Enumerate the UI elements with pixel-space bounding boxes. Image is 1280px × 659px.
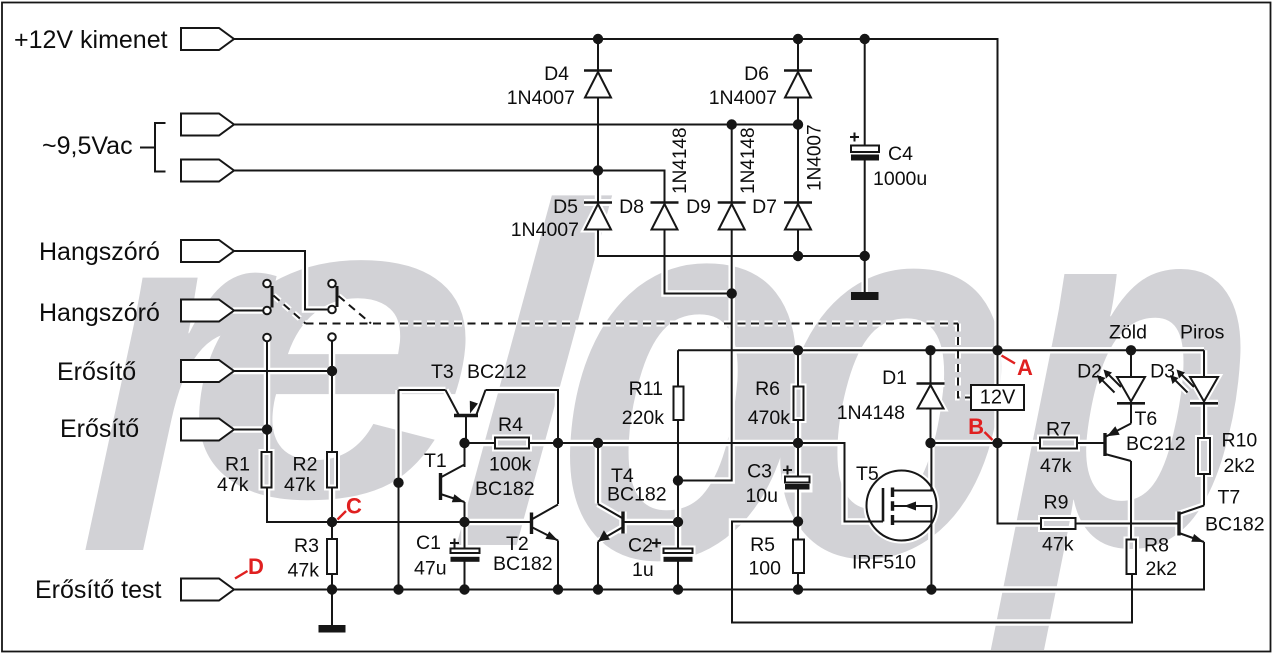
- svg-text:R1: R1: [225, 454, 250, 476]
- svg-text:R9: R9: [1044, 492, 1069, 514]
- svg-text:T3: T3: [431, 361, 454, 383]
- svg-text:47k: 47k: [288, 560, 320, 582]
- svg-text:1N4148: 1N4148: [837, 402, 905, 424]
- svg-text:2k2: 2k2: [1224, 455, 1255, 477]
- svg-text:BC182: BC182: [475, 478, 535, 500]
- svg-text:C3: C3: [747, 461, 772, 483]
- svg-text:D: D: [248, 554, 264, 579]
- svg-text:T1: T1: [424, 450, 447, 472]
- svg-text:~9,5Vac: ~9,5Vac: [42, 132, 133, 160]
- svg-text:BC182: BC182: [1205, 514, 1265, 536]
- svg-text:1N4007: 1N4007: [511, 219, 579, 241]
- svg-text:D9: D9: [686, 196, 711, 218]
- svg-text:C1: C1: [416, 532, 441, 554]
- svg-text:47k: 47k: [1040, 455, 1072, 477]
- svg-text:Erősítő: Erősítő: [60, 415, 139, 443]
- svg-text:Erősítő: Erősítő: [57, 358, 136, 386]
- svg-text:+12V kimenet: +12V kimenet: [14, 26, 168, 54]
- svg-text:R3: R3: [294, 535, 319, 557]
- svg-text:BC182: BC182: [493, 553, 553, 575]
- svg-text:BC212: BC212: [1126, 433, 1186, 455]
- svg-text:100: 100: [748, 558, 781, 580]
- svg-text:C2: C2: [628, 535, 653, 557]
- svg-text:12V: 12V: [980, 387, 1016, 409]
- svg-text:D2: D2: [1077, 361, 1102, 383]
- svg-text:100k: 100k: [489, 454, 532, 476]
- svg-text:1N4007: 1N4007: [507, 87, 575, 109]
- svg-text:D7: D7: [752, 196, 777, 218]
- svg-text:BC212: BC212: [467, 361, 527, 383]
- svg-text:1N4007: 1N4007: [709, 87, 777, 109]
- svg-text:D6: D6: [744, 63, 769, 85]
- svg-text:Erősítő test: Erősítő test: [35, 576, 161, 604]
- svg-text:2k2: 2k2: [1146, 558, 1177, 580]
- svg-text:1N4148: 1N4148: [670, 127, 691, 194]
- svg-text:D5: D5: [553, 196, 578, 218]
- svg-text:47k: 47k: [284, 474, 316, 496]
- svg-text:470k: 470k: [748, 407, 791, 429]
- svg-text:T7: T7: [1218, 487, 1241, 509]
- svg-text:R10: R10: [1222, 430, 1258, 452]
- svg-text:T6: T6: [1135, 408, 1158, 430]
- svg-text:R2: R2: [293, 454, 318, 476]
- svg-text:D1: D1: [882, 367, 907, 389]
- svg-text:1000u: 1000u: [873, 168, 927, 190]
- svg-text:Zöld: Zöld: [1109, 322, 1147, 344]
- svg-text:1u: 1u: [632, 559, 654, 581]
- svg-text:Piros: Piros: [1180, 322, 1225, 344]
- svg-text:IRF510: IRF510: [852, 552, 916, 574]
- svg-text:B: B: [968, 414, 984, 439]
- svg-text:220k: 220k: [622, 407, 665, 429]
- svg-text:R7: R7: [1046, 419, 1071, 441]
- svg-text:D4: D4: [544, 63, 569, 85]
- svg-text:1N4007: 1N4007: [805, 124, 826, 191]
- svg-text:C4: C4: [888, 143, 913, 165]
- svg-text:R4: R4: [498, 414, 523, 436]
- svg-text:T2: T2: [506, 533, 529, 555]
- svg-text:D8: D8: [619, 196, 644, 218]
- svg-text:47k: 47k: [217, 474, 249, 496]
- svg-text:R8: R8: [1144, 535, 1169, 557]
- svg-text:R11: R11: [629, 378, 663, 400]
- svg-text:1N4148: 1N4148: [738, 127, 759, 194]
- svg-text:T5: T5: [856, 463, 879, 485]
- svg-text:47u: 47u: [414, 558, 447, 580]
- svg-text:C: C: [346, 494, 362, 519]
- svg-text:Hangszóró: Hangszóró: [39, 238, 160, 266]
- svg-text:47k: 47k: [1042, 534, 1074, 556]
- svg-text:A: A: [1017, 355, 1033, 380]
- svg-text:R6: R6: [755, 378, 780, 400]
- svg-text:10u: 10u: [745, 485, 778, 507]
- svg-text:R5: R5: [750, 534, 775, 556]
- svg-text:BC182: BC182: [607, 484, 667, 506]
- svg-text:D3: D3: [1150, 361, 1175, 383]
- svg-text:Hangszóró: Hangszóró: [39, 299, 160, 327]
